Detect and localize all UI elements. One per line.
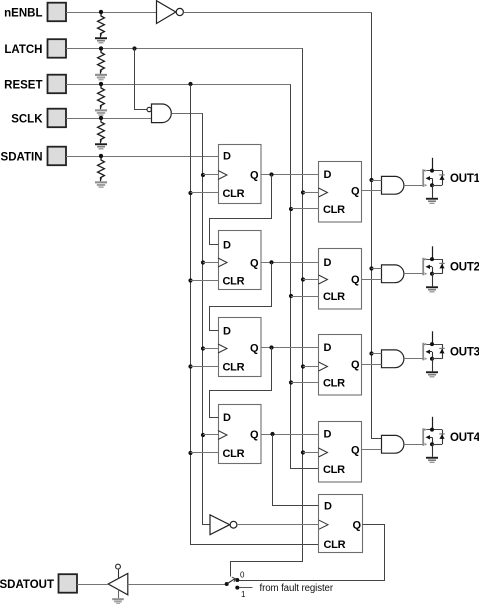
- wire inverted nENBL to enable bus: [183, 12, 371, 14]
- AND gate A1 (OUT1 driver): [382, 176, 404, 194]
- junction + stub latch clock to stage 1: [301, 190, 319, 194]
- power MOSFET M3 with body diode (OUT3): [422, 331, 444, 371]
- svg-text:CLR: CLR: [323, 204, 345, 216]
- svg-text:D: D: [324, 257, 332, 269]
- shift CLR bus vertical (RESET): [188, 82, 318, 545]
- svg-text:Q: Q: [250, 170, 259, 182]
- junction + stub shift clock to stage 4: [201, 433, 218, 437]
- svg-text:RESET: RESET: [4, 79, 42, 91]
- input pin LATCH: [4, 39, 66, 58]
- wire readback FF Q to switch contact 0: [238, 525, 385, 581]
- AND gate U2 with inverted LATCH input (SCLK gating): [147, 104, 171, 123]
- junction + stub shift CLR to stage 1: [188, 191, 218, 195]
- ground under M1: [426, 198, 438, 204]
- junction + stub shift CLR to stage 3: [188, 364, 218, 368]
- ground under M2: [426, 286, 438, 292]
- svg-text:D: D: [223, 239, 231, 251]
- svg-text:Q: Q: [351, 274, 360, 286]
- wire buffer output to SDATOUT pin: [77, 584, 108, 586]
- wire shift stage 4 Q to latch stage 4 D: [261, 434, 319, 436]
- AND gate A3 (OUT3 driver): [382, 350, 404, 368]
- resistor R1 pulldown: [98, 10, 105, 37]
- junction + stub shift clock to stage 1: [201, 173, 218, 177]
- svg-text:1: 1: [241, 590, 246, 599]
- resistor R3 pulldown: [98, 82, 105, 109]
- svg-text:CLR: CLR: [323, 377, 345, 389]
- junction + stub shift CLR to stage 2: [188, 278, 218, 282]
- svg-text:OUT1: OUT1: [450, 173, 479, 185]
- enable bus vertical (nENBL inverted): [372, 13, 382, 439]
- wire shift stage 2 Q to latch stage 2 D: [261, 262, 319, 264]
- input pin nENBL: [4, 3, 66, 22]
- junction + stub shift CLR to stage 4: [188, 451, 218, 455]
- junction + stub latch clock to stage 2: [301, 277, 319, 281]
- svg-text:Q: Q: [250, 343, 259, 355]
- label 0 contact: [240, 571, 245, 580]
- D flip-flop U8 (output latch stage 2): [319, 249, 362, 310]
- svg-text:CLR: CLR: [223, 361, 245, 373]
- wire latch stage 2 Q to A2: [362, 279, 382, 281]
- shift clock bus vertical (SCLK gated): [203, 114, 211, 525]
- wire shift stage 3 Q cascade to stage 4 D: [210, 345, 274, 417]
- svg-text:0: 0: [240, 571, 245, 580]
- wire latch stage 3 Q to A3: [362, 364, 382, 366]
- svg-text:nENBL: nENBL: [4, 7, 42, 19]
- D flip-flop U5 (shift register stage 3): [218, 318, 261, 377]
- D flip-flop U10 (output latch stage 4): [319, 422, 362, 483]
- wire A1 output to MOSFET gate: [404, 185, 423, 187]
- svg-text:CLR: CLR: [323, 464, 345, 476]
- input pin SDATIN: [1, 147, 66, 166]
- wire nENBL pin to inverter input: [66, 12, 157, 14]
- wire A2 output to MOSFET gate: [404, 273, 423, 275]
- svg-text:Q: Q: [352, 520, 361, 532]
- svg-text:from fault register: from fault register: [260, 583, 334, 594]
- junction + stub enable bus to A2: [369, 266, 381, 270]
- ground under R5: [95, 181, 107, 188]
- svg-text:Q: Q: [250, 429, 259, 441]
- svg-text:D: D: [324, 342, 332, 354]
- wire U2 output to shift clock bus: [171, 113, 203, 115]
- wire latch stage 4 Q to A4: [362, 449, 382, 451]
- wire LATCH pin run: [66, 48, 303, 50]
- wire shift stage 4 Q cascade to readback FF D: [270, 432, 318, 506]
- junction + stub latch clock to stage 4: [301, 450, 319, 454]
- power MOSFET M4 with body diode (OUT4): [422, 417, 444, 457]
- AND gate A2 (OUT2 driver): [382, 265, 404, 283]
- output pin SDATOUT: [0, 574, 77, 593]
- latch clock bus vertical (LATCH): [231, 49, 303, 577]
- wire A3 output to MOSFET gate: [404, 358, 423, 360]
- svg-text:Q: Q: [351, 186, 360, 198]
- D flip-flop U9 (output latch stage 3): [319, 335, 362, 396]
- tri-state buffer U13 (SDATOUT driver): [108, 564, 128, 595]
- net label OUT3: [450, 347, 479, 359]
- svg-text:Q: Q: [250, 257, 259, 269]
- input pin SCLK: [11, 109, 66, 128]
- wire switch common to buffer input: [128, 584, 227, 586]
- wire A4 output to MOSFET gate: [404, 444, 423, 446]
- junction nENBL/R1: [99, 10, 103, 14]
- resistor R4 pulldown: [98, 116, 105, 143]
- wire shift stage 3 Q to latch stage 3 D: [261, 347, 319, 349]
- wire LATCH branch to U2 inverted input: [132, 46, 146, 109]
- junction + stub latch CLR to stage 3: [289, 380, 319, 384]
- ground under R3: [95, 109, 107, 116]
- wire shift stage 2 Q cascade to stage 3 D: [210, 260, 274, 330]
- AND gate A4 (OUT4 driver): [382, 435, 404, 453]
- switch SW1 (shift register / fault register select): [225, 577, 240, 590]
- D flip-flop U6 (shift register stage 4): [218, 405, 261, 464]
- svg-text:CLR: CLR: [223, 448, 245, 460]
- D flip-flop U3 (shift register stage 1): [218, 145, 261, 204]
- wire RESET pin run: [66, 84, 291, 86]
- svg-text:SDATOUT: SDATOUT: [0, 579, 54, 591]
- ground under R4: [95, 143, 107, 149]
- svg-text:D: D: [223, 325, 231, 337]
- net label from fault register: [260, 583, 334, 594]
- svg-text:CLR: CLR: [323, 291, 345, 303]
- D flip-flop U11 (serial readback stage): [319, 495, 363, 553]
- svg-text:D: D: [324, 169, 332, 181]
- resistor R5 pulldown: [98, 154, 105, 181]
- D flip-flop U7 (output latch stage 1): [319, 162, 362, 223]
- inverter U12 (readback clock): [210, 515, 237, 535]
- junction + stub latch clock to stage 3: [301, 364, 319, 368]
- junction + stub shift clock to stage 2: [201, 260, 218, 264]
- D flip-flop U4 (shift register stage 2): [218, 231, 261, 290]
- junction + stub latch CLR to stage 1: [289, 207, 319, 211]
- svg-text:OUT2: OUT2: [450, 262, 479, 274]
- resistor R2 pulldown: [98, 46, 105, 73]
- power MOSFET M1 with body diode (OUT1): [422, 158, 444, 198]
- svg-text:OUT4: OUT4: [450, 432, 479, 444]
- junction SCLK/R4: [99, 116, 103, 120]
- net label OUT4: [450, 432, 479, 444]
- wire SDATIN pin to shift FF1 D input: [66, 156, 218, 158]
- svg-text:SDATIN: SDATIN: [1, 151, 43, 163]
- ground under M3: [426, 371, 438, 377]
- svg-text:CLR: CLR: [223, 188, 245, 200]
- junction + stub enable bus to A1: [369, 178, 381, 182]
- svg-text:Q: Q: [351, 359, 360, 371]
- svg-text:D: D: [223, 151, 231, 163]
- wire contact 1 from fault register: [239, 587, 253, 589]
- svg-text:CLR: CLR: [223, 275, 245, 287]
- net label OUT2: [450, 262, 479, 274]
- junction RESET/R3: [99, 82, 103, 86]
- signal ground under U13: [112, 590, 124, 604]
- svg-text:D: D: [223, 412, 231, 424]
- ground under R2: [95, 74, 107, 81]
- wire SCLK pin to NAND input: [66, 118, 152, 120]
- svg-text:OUT3: OUT3: [450, 347, 479, 359]
- junction LATCH/R2: [99, 46, 103, 50]
- wire latch stage 1 Q to A1: [362, 190, 382, 192]
- junction SDATIN/R5: [99, 154, 103, 158]
- wire shift stage 1 Q to latch stage 1 D: [261, 174, 319, 176]
- wire shift stage 1 Q cascade to stage 2 D: [210, 172, 274, 244]
- wire U12 output to readback FF clock: [237, 524, 319, 526]
- net label OUT1: [450, 173, 479, 185]
- ground under R1: [95, 37, 107, 43]
- junction + stub enable bus to A3: [369, 351, 381, 355]
- svg-text:Q: Q: [351, 445, 360, 457]
- latch CLR bus vertical (RESET): [291, 85, 319, 469]
- svg-text:LATCH: LATCH: [4, 44, 42, 56]
- ground under M4: [426, 457, 438, 463]
- label 1 contact: [241, 590, 246, 599]
- junction + stub latch CLR to stage 2: [289, 294, 319, 298]
- inverter U1 on nENBL: [157, 1, 184, 24]
- svg-text:D: D: [324, 501, 332, 513]
- svg-text:D: D: [324, 429, 332, 441]
- svg-text:CLR: CLR: [324, 539, 346, 551]
- svg-text:SCLK: SCLK: [11, 113, 43, 125]
- power MOSFET M2 with body diode (OUT2): [422, 246, 444, 286]
- junction + stub shift clock to stage 3: [201, 346, 218, 350]
- input pin RESET: [4, 75, 66, 94]
